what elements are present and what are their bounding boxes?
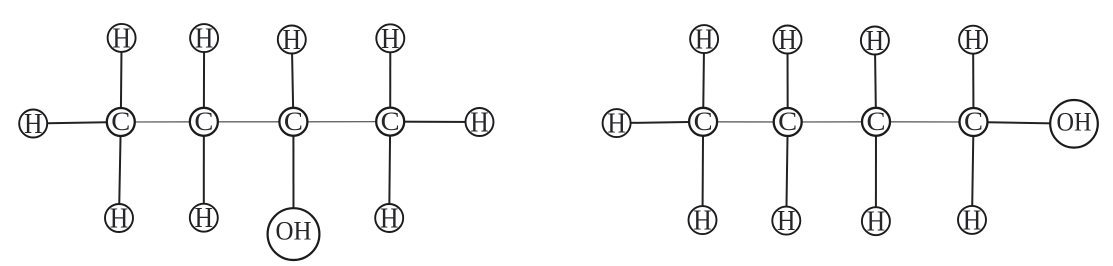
wire C2-H(top2) xyxy=(203,38,205,122)
svg-text:C: C xyxy=(284,107,303,136)
atom C2 xyxy=(190,108,218,136)
svg-text:C: C xyxy=(778,107,797,136)
svg-text:H: H xyxy=(24,109,43,140)
atom H HB1 xyxy=(105,204,133,232)
svg-text:C: C xyxy=(694,107,713,136)
wire C2-H(bottom2) xyxy=(203,122,205,218)
wire C4-H(right) xyxy=(390,121,479,123)
svg-text:H: H xyxy=(778,25,797,56)
atom H HB4 xyxy=(958,206,986,234)
wire C4-H(bottom4) xyxy=(389,122,390,218)
svg-text:H: H xyxy=(963,205,982,236)
svg-text:H: H xyxy=(112,23,131,54)
atom H HB3 xyxy=(862,207,890,235)
svg-text:OH: OH xyxy=(276,216,312,246)
svg-text:C: C xyxy=(867,107,886,136)
wire C3-H(bottom3) xyxy=(875,122,877,221)
wire C4-H(top4) xyxy=(972,40,974,122)
atom H HB2 xyxy=(772,207,800,235)
wire H(left)-C1 xyxy=(33,122,121,124)
wire C1-C2 xyxy=(121,121,204,123)
atom C3 xyxy=(279,108,307,136)
svg-text:H: H xyxy=(866,26,885,57)
svg-text:H: H xyxy=(695,25,714,56)
wire C2-C3 xyxy=(788,121,876,123)
wire C1-H(bottom1) xyxy=(119,122,121,218)
wire C1-C2 xyxy=(703,121,788,123)
atom C4 xyxy=(376,108,404,136)
wire H(left)-C1 xyxy=(617,122,704,123)
atom H HR xyxy=(466,108,494,136)
wire C4-H(bottom4) xyxy=(972,122,974,220)
atom H HL xyxy=(603,109,631,137)
svg-text:OH: OH xyxy=(1057,106,1092,136)
wire C2-C3 xyxy=(204,121,294,123)
atom H HB4 xyxy=(375,204,403,232)
atom C4 xyxy=(960,108,988,136)
svg-text:C: C xyxy=(381,107,400,136)
atom OH xyxy=(1050,100,1098,148)
wire C3-C4 xyxy=(876,121,974,123)
svg-text:H: H xyxy=(380,204,399,235)
svg-text:C: C xyxy=(111,107,130,136)
svg-text:H: H xyxy=(195,24,214,55)
wire C1-H(bottom1) xyxy=(702,122,705,220)
wire C4-OH xyxy=(974,122,1075,124)
svg-text:H: H xyxy=(381,24,400,55)
svg-text:H: H xyxy=(470,108,489,139)
atom H HT1 xyxy=(690,25,718,53)
atom H HB1 xyxy=(689,206,717,234)
svg-text:C: C xyxy=(194,107,213,136)
atom C1 xyxy=(689,108,717,136)
wire C2-H(top2) xyxy=(787,40,789,123)
wire C2-H(bottom2) xyxy=(786,122,787,221)
atom C1 xyxy=(107,108,135,136)
svg-text:C: C xyxy=(964,107,983,136)
atom H HT4 xyxy=(959,26,987,54)
atom H HT2 xyxy=(774,26,802,54)
svg-text:H: H xyxy=(777,206,796,237)
wire C3-H(top3) xyxy=(292,40,294,122)
atom H HB2 xyxy=(190,204,218,232)
wire C4-H(top4) xyxy=(389,38,391,121)
wire C3-C4 xyxy=(293,121,390,123)
wire C1-H(top1) xyxy=(120,38,123,122)
svg-text:H: H xyxy=(693,206,712,237)
wire C3-H(top3) xyxy=(875,41,876,122)
svg-text:H: H xyxy=(867,207,886,238)
atom C3 xyxy=(862,108,890,136)
svg-text:H: H xyxy=(110,204,129,235)
svg-text:H: H xyxy=(964,25,983,56)
svg-text:H: H xyxy=(283,25,302,56)
svg-text:H: H xyxy=(195,203,214,234)
atom H HT3 xyxy=(861,27,889,55)
atom OH xyxy=(268,208,320,260)
wire C3-OH xyxy=(292,122,294,234)
atom H HT4 xyxy=(376,24,404,52)
atom C2 xyxy=(774,108,802,136)
atom H HL xyxy=(19,110,47,138)
svg-text:H: H xyxy=(607,109,626,140)
atom H HT1 xyxy=(108,24,136,52)
wire C1-H(top1) xyxy=(703,39,704,122)
atom H HT3 xyxy=(278,26,306,54)
atom H HT2 xyxy=(190,24,218,52)
